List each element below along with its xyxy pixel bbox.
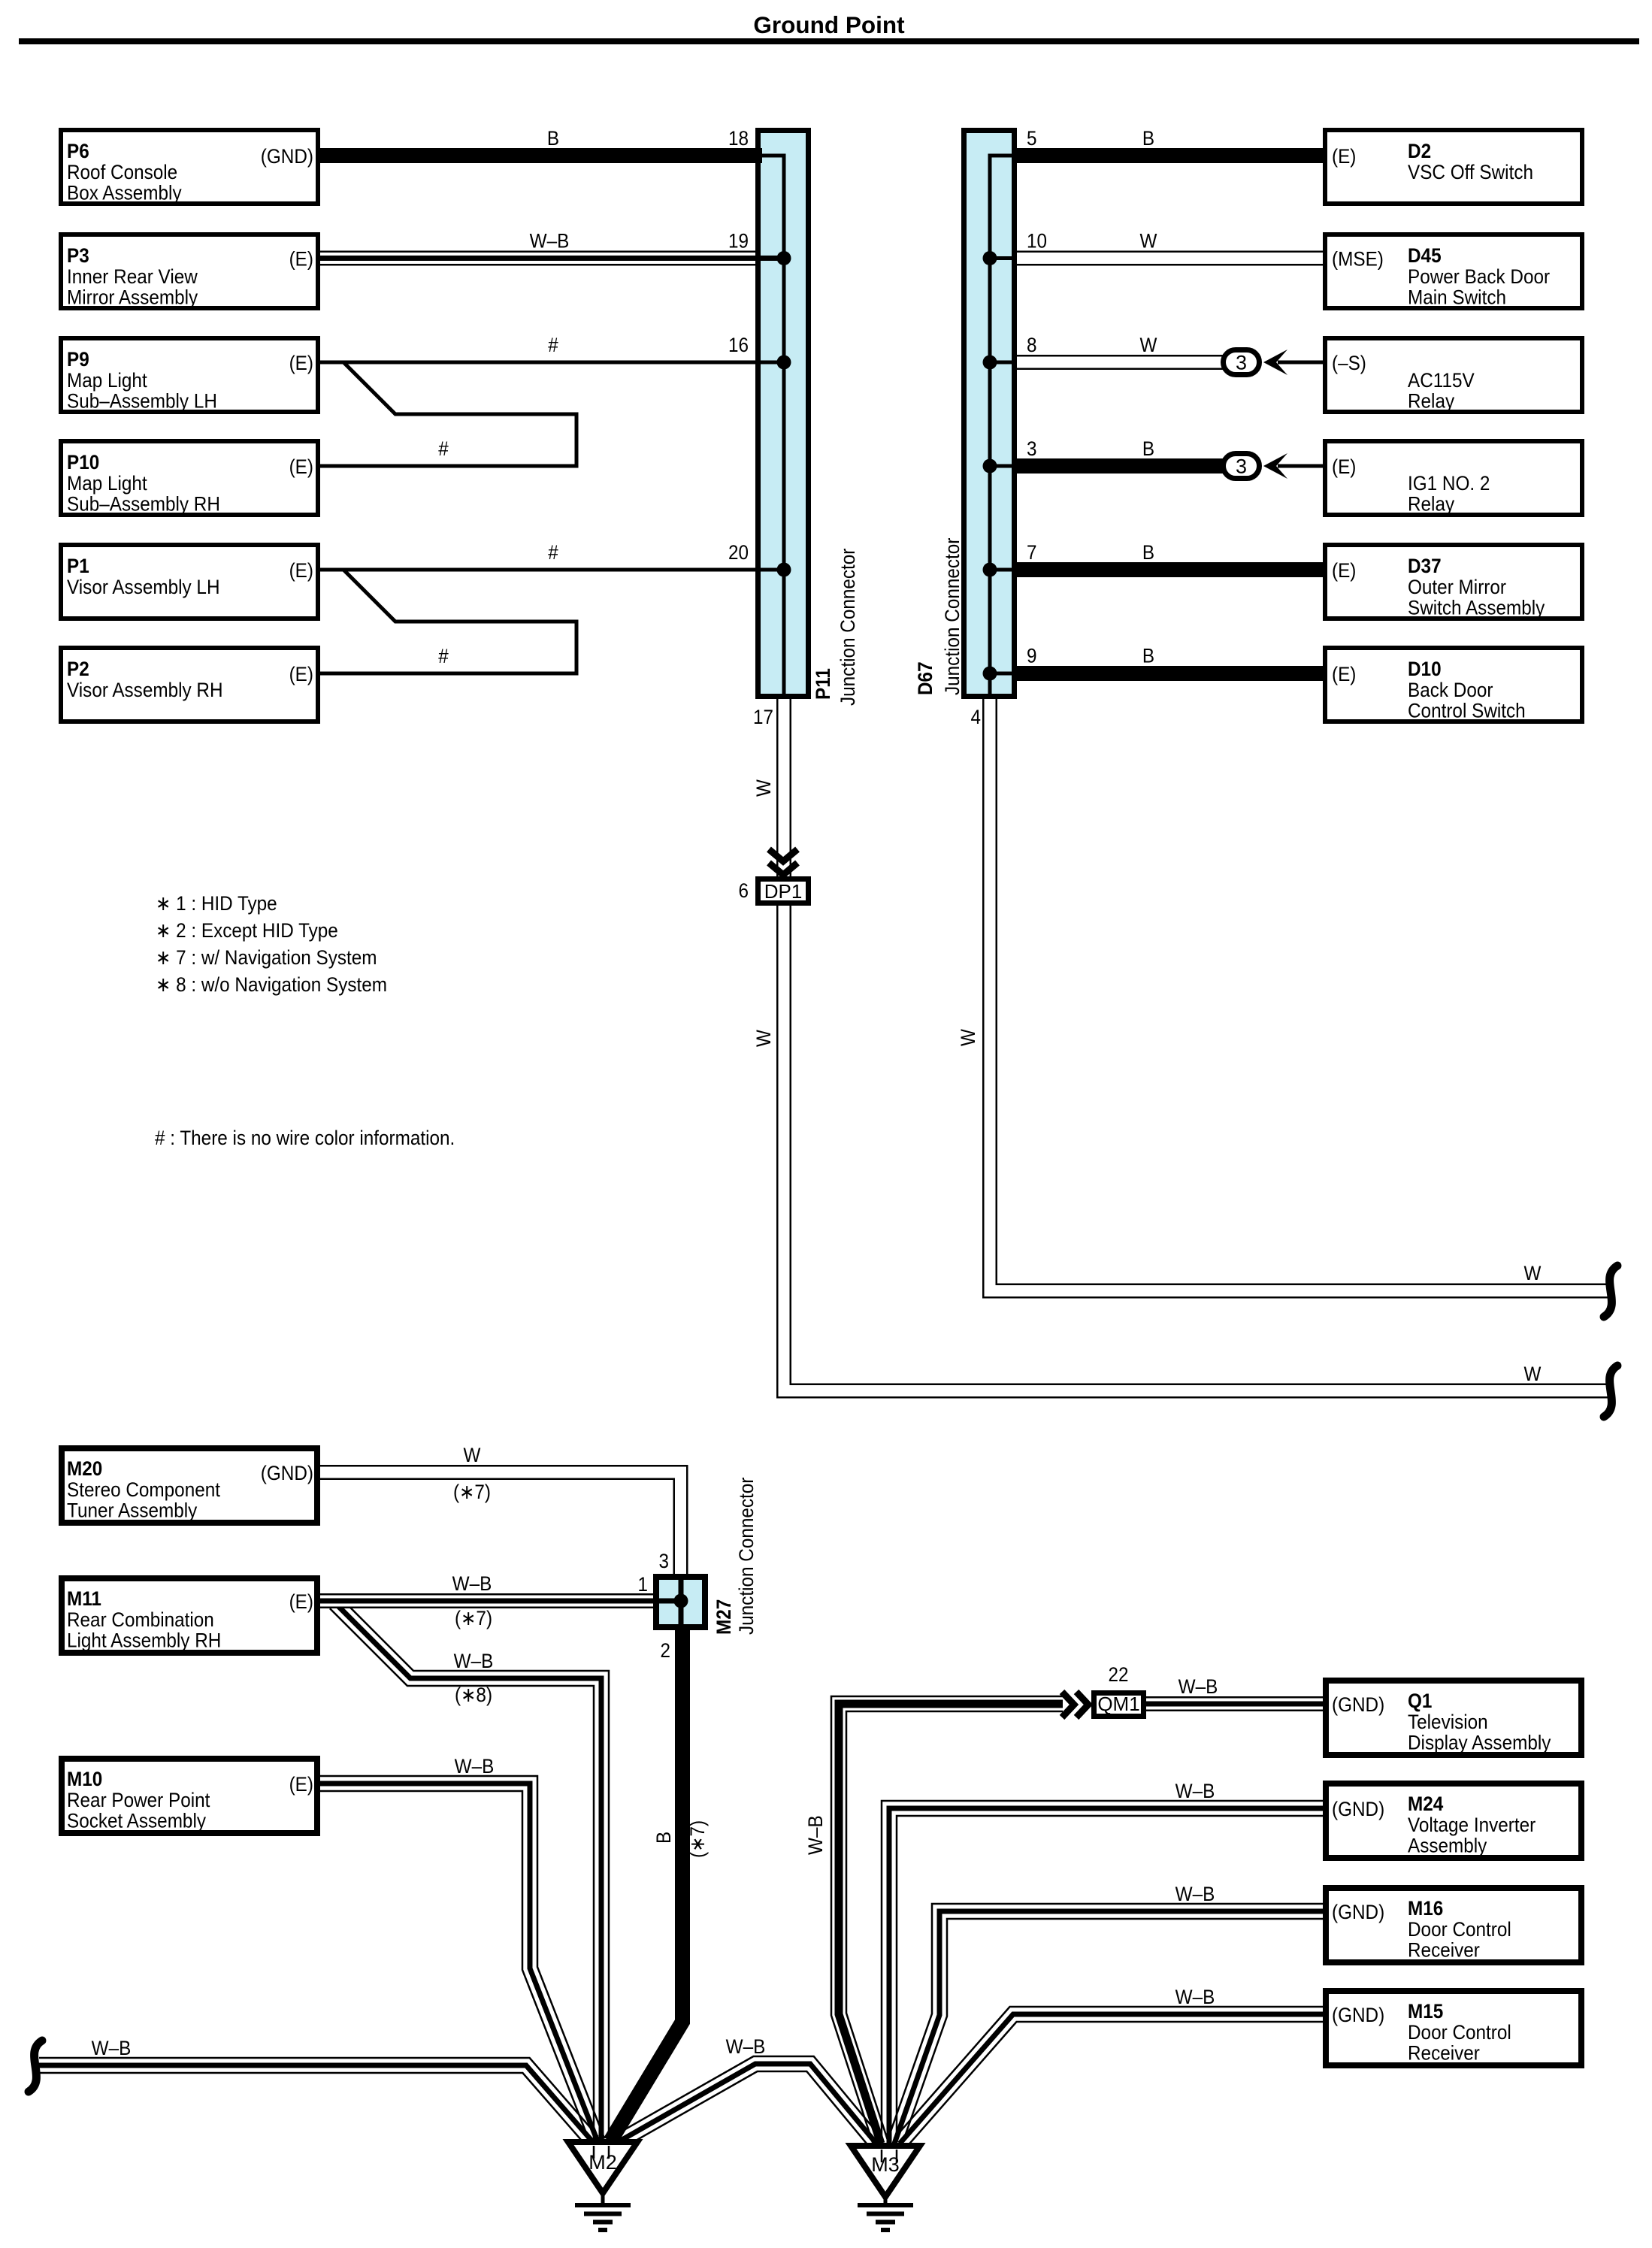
svg-text:P11: P11 xyxy=(812,668,834,700)
svg-text:(∗7): (∗7) xyxy=(453,1481,491,1503)
svg-text:B: B xyxy=(1142,127,1154,150)
svg-text:W–B: W–B xyxy=(1175,1780,1215,1802)
svg-text:Back Door: Back Door xyxy=(1408,679,1493,701)
svg-text:W: W xyxy=(1140,334,1157,356)
svg-text:P10: P10 xyxy=(67,451,99,474)
svg-text:D67: D67 xyxy=(914,661,936,695)
svg-text:VSC Off Switch: VSC Off Switch xyxy=(1408,161,1533,183)
svg-text:Receiver: Receiver xyxy=(1408,2042,1480,2065)
svg-text:Tuner Assembly: Tuner Assembly xyxy=(67,1499,198,1522)
svg-text:Q1: Q1 xyxy=(1408,1690,1432,1712)
svg-text:Light Assembly RH: Light Assembly RH xyxy=(67,1629,221,1652)
svg-text:B: B xyxy=(1142,645,1154,667)
svg-text:2: 2 xyxy=(661,1639,671,1662)
svg-text:B: B xyxy=(1142,437,1154,460)
svg-text:5: 5 xyxy=(1027,127,1037,150)
svg-text:W: W xyxy=(1140,230,1157,253)
svg-text:Door Control: Door Control xyxy=(1408,2021,1511,2044)
svg-text:Sub–Assembly RH: Sub–Assembly RH xyxy=(67,493,220,516)
svg-text:M24: M24 xyxy=(1408,1793,1443,1815)
svg-text:B: B xyxy=(1142,541,1154,564)
svg-text:#: # xyxy=(438,645,449,667)
svg-text:Stereo Component: Stereo Component xyxy=(67,1478,220,1501)
svg-text:(GND): (GND) xyxy=(1332,1798,1384,1820)
svg-text:W–B: W–B xyxy=(455,1755,495,1778)
svg-text:B: B xyxy=(652,1832,675,1844)
svg-text:(∗7): (∗7) xyxy=(455,1607,492,1629)
svg-text:Power Back Door: Power Back Door xyxy=(1408,265,1550,288)
svg-text:D37: D37 xyxy=(1408,555,1442,577)
svg-text:Junction Connector: Junction Connector xyxy=(735,1478,758,1635)
svg-text:P1: P1 xyxy=(67,555,89,577)
svg-text:# : There is no wire color inf: # : There is no wire color information. xyxy=(155,1127,455,1149)
svg-text:Receiver: Receiver xyxy=(1408,1939,1480,1962)
svg-text:Mirror Assembly: Mirror Assembly xyxy=(67,286,198,309)
svg-text:#: # xyxy=(548,541,558,564)
svg-text:Door Control: Door Control xyxy=(1408,1918,1511,1941)
svg-text:(E): (E) xyxy=(1332,559,1356,582)
svg-text:6: 6 xyxy=(739,879,749,902)
svg-text:(GND): (GND) xyxy=(261,145,313,168)
svg-text:∗ 8 : w/o Navigation System: ∗ 8 : w/o Navigation System xyxy=(156,973,387,996)
svg-text:M27: M27 xyxy=(713,1599,735,1635)
svg-text:Display Assembly: Display Assembly xyxy=(1408,1732,1551,1754)
svg-text:∗ 7 : w/ Navigation System: ∗ 7 : w/ Navigation System xyxy=(156,946,377,969)
svg-text:Junction Connector: Junction Connector xyxy=(837,549,859,706)
svg-text:(E): (E) xyxy=(1332,455,1356,478)
svg-text:7: 7 xyxy=(1027,541,1037,564)
svg-text:Assembly: Assembly xyxy=(1408,1835,1487,1857)
svg-text:Television: Television xyxy=(1408,1711,1488,1733)
svg-text:(E): (E) xyxy=(289,455,313,478)
svg-text:W–B: W–B xyxy=(1175,1883,1215,1905)
svg-text:W: W xyxy=(1524,1363,1542,1385)
svg-text:Voltage Inverter: Voltage Inverter xyxy=(1408,1814,1536,1836)
svg-text:Roof Console: Roof Console xyxy=(67,161,177,183)
svg-text:M11: M11 xyxy=(67,1587,101,1610)
svg-text:M16: M16 xyxy=(1408,1897,1443,1920)
svg-text:P9: P9 xyxy=(67,348,89,371)
svg-text:M10: M10 xyxy=(67,1768,102,1790)
svg-text:Map Light: Map Light xyxy=(67,369,147,392)
svg-text:Visor Assembly RH: Visor Assembly RH xyxy=(67,679,223,701)
svg-text:D45: D45 xyxy=(1408,244,1442,267)
svg-text:M20: M20 xyxy=(67,1457,102,1480)
svg-text:M2: M2 xyxy=(588,2151,617,2174)
svg-text:3: 3 xyxy=(659,1550,670,1572)
svg-text:W–B: W–B xyxy=(804,1815,827,1855)
svg-text:#: # xyxy=(548,334,558,356)
svg-text:Visor Assembly LH: Visor Assembly LH xyxy=(67,576,220,598)
svg-text:(E): (E) xyxy=(289,663,313,685)
svg-text:(∗8): (∗8) xyxy=(455,1684,492,1706)
svg-text:B: B xyxy=(547,127,559,150)
svg-text:W–B: W–B xyxy=(1178,1675,1218,1698)
svg-text:∗ 1 : HID Type: ∗ 1 : HID Type xyxy=(156,892,277,915)
svg-text:AC115V: AC115V xyxy=(1408,369,1475,392)
svg-text:(MSE): (MSE) xyxy=(1332,248,1384,271)
svg-text:22: 22 xyxy=(1109,1663,1129,1686)
svg-text:(E): (E) xyxy=(289,352,313,374)
svg-text:Relay: Relay xyxy=(1408,493,1455,516)
svg-text:Box Assembly: Box Assembly xyxy=(67,182,182,204)
svg-text:#: # xyxy=(438,437,449,460)
svg-text:Outer Mirror: Outer Mirror xyxy=(1408,576,1506,598)
svg-text:9: 9 xyxy=(1027,645,1037,667)
svg-text:Rear Power Point: Rear Power Point xyxy=(67,1789,210,1811)
svg-text:P6: P6 xyxy=(67,140,89,162)
svg-text:Inner Rear View: Inner Rear View xyxy=(67,265,198,288)
svg-text:W–B: W–B xyxy=(92,2037,132,2059)
svg-text:D10: D10 xyxy=(1408,658,1442,680)
svg-text:IG1 NO. 2: IG1 NO. 2 xyxy=(1408,472,1490,495)
svg-text:QM1: QM1 xyxy=(1097,1693,1139,1715)
svg-text:Switch Assembly: Switch Assembly xyxy=(1408,597,1545,619)
svg-text:Main Switch: Main Switch xyxy=(1408,286,1506,309)
svg-text:Ground Point: Ground Point xyxy=(753,11,905,38)
svg-text:∗ 2 : Except HID Type: ∗ 2 : Except HID Type xyxy=(156,919,338,942)
svg-text:3: 3 xyxy=(1236,455,1247,478)
svg-text:(E): (E) xyxy=(289,248,313,271)
svg-text:(GND): (GND) xyxy=(1332,1693,1384,1716)
svg-text:(E): (E) xyxy=(289,559,313,582)
svg-text:4: 4 xyxy=(971,706,982,728)
svg-text:18: 18 xyxy=(728,127,749,150)
svg-text:W–B: W–B xyxy=(1175,1986,1215,2008)
svg-text:3: 3 xyxy=(1027,437,1037,460)
svg-text:(E): (E) xyxy=(1332,145,1356,168)
svg-text:W: W xyxy=(957,1029,979,1046)
svg-text:Sub–Assembly LH: Sub–Assembly LH xyxy=(67,390,217,413)
svg-text:W–B: W–B xyxy=(726,2035,766,2058)
svg-text:Junction Connector: Junction Connector xyxy=(941,538,964,695)
svg-text:W: W xyxy=(752,779,775,797)
svg-text:19: 19 xyxy=(728,230,749,253)
svg-text:M15: M15 xyxy=(1408,2000,1443,2023)
svg-text:(E): (E) xyxy=(289,1773,313,1796)
svg-text:1: 1 xyxy=(638,1573,649,1596)
svg-text:(E): (E) xyxy=(1332,663,1356,685)
svg-text:(E): (E) xyxy=(289,1590,313,1613)
svg-text:W: W xyxy=(464,1444,481,1466)
svg-text:W–B: W–B xyxy=(452,1572,492,1595)
svg-text:W: W xyxy=(752,1030,775,1047)
svg-text:Relay: Relay xyxy=(1408,390,1455,413)
svg-text:(GND): (GND) xyxy=(1332,2004,1384,2026)
svg-text:16: 16 xyxy=(728,334,749,356)
svg-text:P3: P3 xyxy=(67,244,89,267)
svg-text:Map Light: Map Light xyxy=(67,472,147,495)
svg-text:8: 8 xyxy=(1027,334,1037,356)
svg-text:(–S): (–S) xyxy=(1332,352,1366,374)
svg-text:W–B: W–B xyxy=(530,230,570,253)
svg-text:(∗7): (∗7) xyxy=(686,1820,709,1858)
svg-text:Socket Assembly: Socket Assembly xyxy=(67,1810,206,1832)
svg-text:D2: D2 xyxy=(1408,140,1431,162)
svg-text:M3: M3 xyxy=(871,2153,900,2176)
svg-text:3: 3 xyxy=(1236,352,1247,374)
svg-text:P2: P2 xyxy=(67,658,89,680)
svg-text:(GND): (GND) xyxy=(1332,1901,1384,1923)
svg-text:10: 10 xyxy=(1027,230,1047,253)
svg-text:Rear Combination: Rear Combination xyxy=(67,1608,214,1631)
svg-text:20: 20 xyxy=(728,541,749,564)
svg-text:W–B: W–B xyxy=(454,1650,494,1672)
svg-text:DP1: DP1 xyxy=(764,880,803,903)
svg-text:Control Switch: Control Switch xyxy=(1408,700,1526,722)
svg-text:W: W xyxy=(1524,1262,1542,1284)
svg-text:17: 17 xyxy=(753,706,773,728)
svg-text:(GND): (GND) xyxy=(261,1462,313,1484)
